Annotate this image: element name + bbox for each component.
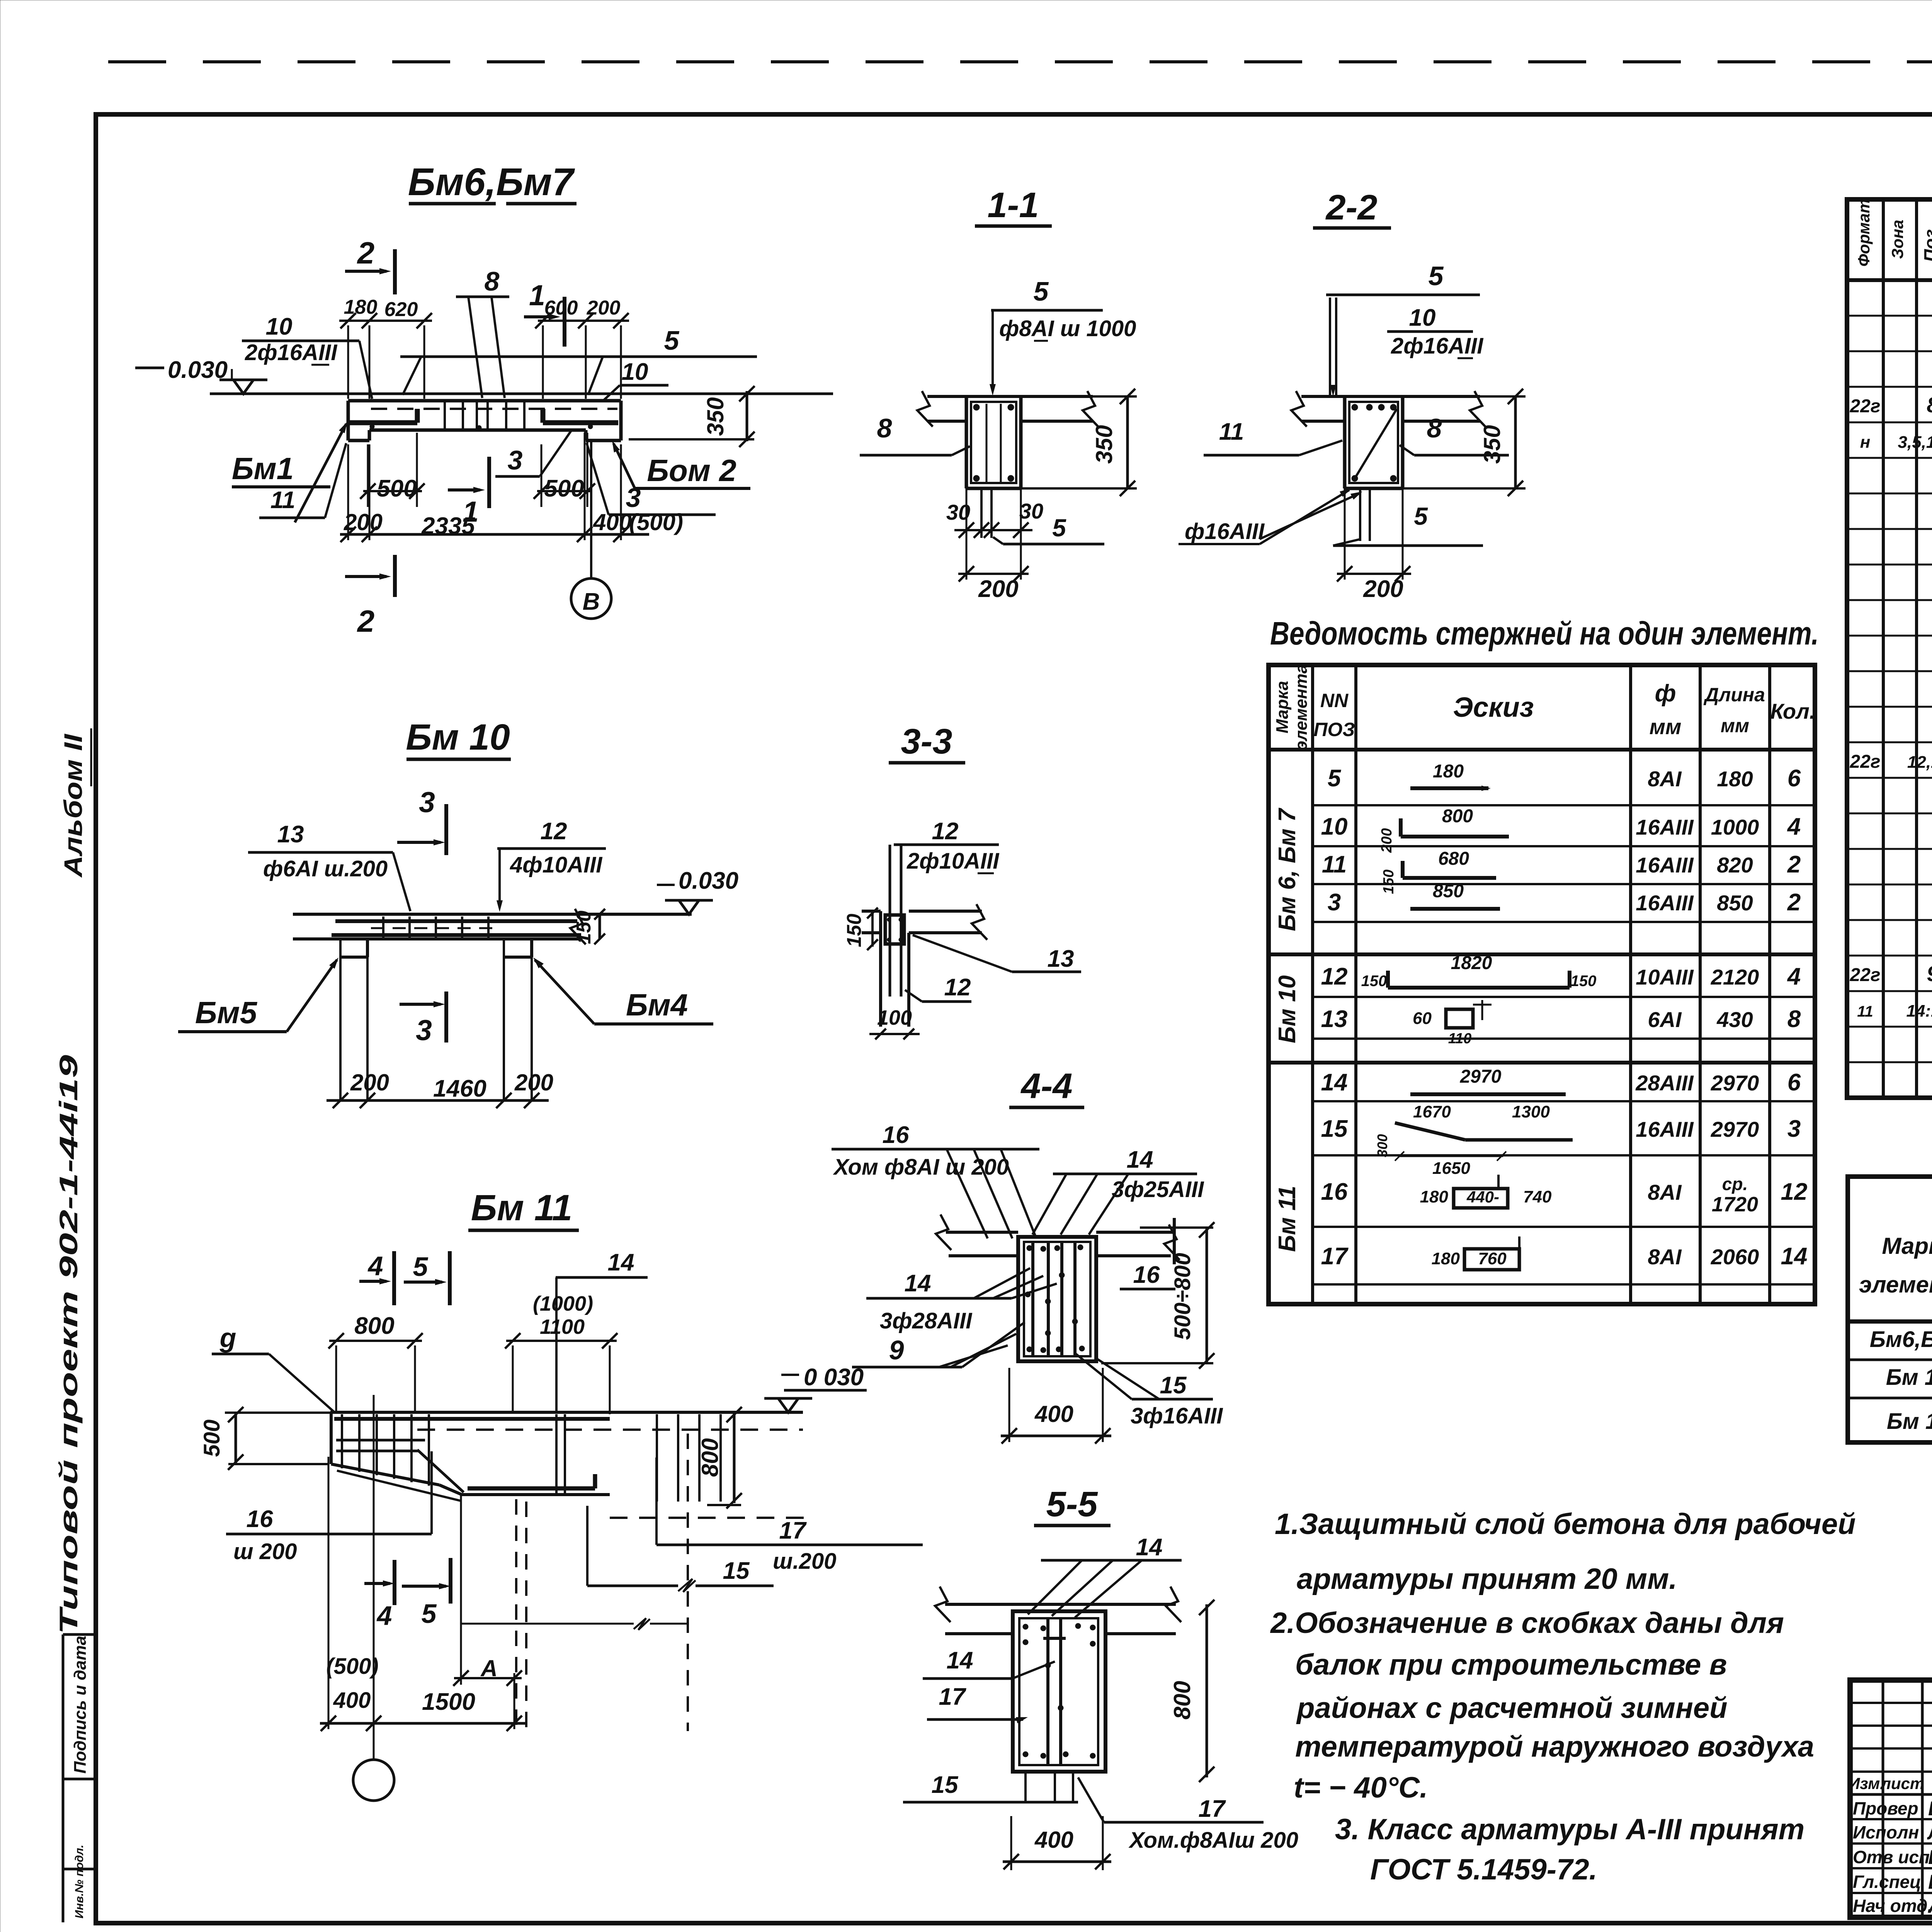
left margin bottom column box (62, 1634, 65, 1922)
svg-text:Альбом II: Альбом II (59, 733, 87, 878)
svg-text:3: 3 (1787, 1116, 1801, 1142)
beam Бм6 stirrups (444, 402, 446, 429)
vedomost header row line (1269, 748, 1815, 752)
svg-text:150: 150 (1381, 869, 1397, 894)
svg-text:Бм6,Бм7: Бм6,Бм7 (408, 160, 575, 204)
svg-text:0 030: 0 030 (804, 1364, 864, 1391)
section cut 1 top (563, 297, 566, 347)
section cut 5 top (448, 1251, 452, 1305)
svg-text:1000: 1000 (1711, 815, 1759, 839)
svg-text:500÷800: 500÷800 (1170, 1253, 1195, 1340)
svg-text:760: 760 (1478, 1249, 1507, 1268)
dimension 800 section 5-5 (1206, 1604, 1208, 1777)
svg-text:15: 15 (1160, 1372, 1187, 1399)
svg-text:150: 150 (843, 914, 866, 947)
svg-text:350: 350 (1091, 425, 1117, 464)
svg-text:4: 4 (367, 1251, 383, 1281)
svg-text:820: 820 (1717, 853, 1753, 877)
svg-text:30: 30 (1019, 499, 1043, 523)
svg-text:элемента: элемента (1292, 664, 1311, 750)
svg-text:Изм.: Изм. (1848, 1774, 1884, 1793)
svg-text:350: 350 (702, 397, 728, 436)
bottom dimension chain Бм6 (340, 533, 649, 536)
title block left verticals (1882, 1680, 1884, 1917)
beam Бм11 stirrups right group (656, 1414, 658, 1502)
section cut 2 top (393, 249, 397, 294)
beam Бм6 outline (348, 399, 621, 403)
svg-text:800: 800 (1169, 1681, 1195, 1719)
svg-text:3ф25АIII: 3ф25АIII (1112, 1177, 1204, 1202)
svg-text:2ф16АIII: 2ф16АIII (245, 340, 338, 365)
svg-text:Исполн: Исполн (1853, 1822, 1919, 1842)
svg-text:680: 680 (1438, 849, 1469, 869)
svg-text:8: 8 (1427, 413, 1442, 443)
right extension + dim 350 Бм6 (629, 438, 754, 440)
section cut 5 bottom Бм11 (449, 1558, 452, 1604)
svg-text:430: 430 (1716, 1007, 1753, 1032)
svg-text:14: 14 (947, 1647, 973, 1674)
beam Бм11 top rebar (334, 1417, 610, 1421)
svg-text:740: 740 (1523, 1187, 1552, 1206)
svg-text:ф: ф (1655, 680, 1676, 707)
svg-text:элемента: элемента (1859, 1272, 1932, 1298)
axis line Бм11 (373, 1395, 375, 1760)
svg-text:3: 3 (626, 483, 641, 513)
beam section 5-5 outline (1013, 1611, 1105, 1772)
svg-text:ш 200: ш 200 (233, 1539, 297, 1564)
svg-text:3: 3 (419, 786, 435, 818)
svg-text:16: 16 (1321, 1179, 1348, 1205)
beam Бм11 top line (330, 1411, 803, 1414)
axis circle Бм11 (353, 1760, 394, 1801)
svg-text:2060: 2060 (1711, 1245, 1759, 1269)
svg-text:0.030: 0.030 (168, 357, 228, 383)
svg-text:Отв исп.: Отв исп. (1853, 1847, 1932, 1867)
svg-text:Бм 10: Бм 10 (1274, 975, 1301, 1043)
svg-text:500: 500 (199, 1420, 224, 1457)
svg-text:400: 400 (1034, 1401, 1073, 1427)
svg-text:Бм 6, Бм 7: Бм 6, Бм 7 (1274, 808, 1301, 931)
svg-text:Бм1: Бм1 (232, 451, 294, 486)
beam Бм6 top bar dashed (371, 408, 617, 410)
slab rebar Бм10 (335, 919, 577, 923)
elevation -0.030 Бм11 (781, 1374, 799, 1376)
svg-text:400: 400 (333, 1688, 371, 1713)
bar dots section 5-5 (1023, 1624, 1028, 1629)
svg-text:Подпись и дата: Подпись и дата (71, 1636, 90, 1774)
svg-text:Длина: Длина (1703, 684, 1765, 706)
svg-text:15: 15 (1321, 1116, 1348, 1142)
svg-text:200: 200 (514, 1070, 553, 1095)
title block left top rows (1850, 1702, 1932, 1704)
beam Бм6 hooked bar left pos10 (350, 420, 417, 425)
top dashed fold line (108, 60, 1932, 63)
svg-text:10: 10 (266, 313, 293, 340)
leader for bar 5 top (400, 355, 757, 358)
svg-text:200: 200 (344, 509, 383, 535)
svg-text:8: 8 (1927, 393, 1932, 417)
svg-text:150: 150 (1361, 973, 1387, 990)
svg-text:150: 150 (1571, 973, 1597, 990)
beam Бм11 soffit second slope (337, 1471, 461, 1501)
svg-text:1.Защитный слой бетона дл: 1.Защитный слой бетона для рабочей (1275, 1508, 1856, 1541)
top dimension line left group (339, 320, 432, 322)
svg-text:12: 12 (1321, 963, 1348, 990)
svg-text:3,5,10,: 3,5,10, (1898, 433, 1932, 452)
svg-text:Эскиз: Эскиз (1453, 692, 1534, 723)
vedomost table verticals (1311, 665, 1314, 1304)
hidden floor line Бм11 (461, 1623, 634, 1625)
sketch row13: hoop 60x110 (1446, 1009, 1473, 1028)
svg-text:8АI: 8АI (1648, 767, 1682, 791)
svg-text:17: 17 (1321, 1243, 1349, 1270)
svg-text:Бм 10: Бм 10 (406, 717, 510, 758)
svg-text:3: 3 (416, 1014, 432, 1046)
dimension 800 right Бм11 (733, 1412, 736, 1503)
svg-text:5: 5 (1052, 514, 1066, 542)
svg-text:11: 11 (1857, 1003, 1873, 1020)
section cut 2 bottom (393, 555, 397, 597)
svg-text:16АIII: 16АIII (1636, 1117, 1694, 1141)
svg-text:9: 9 (1927, 961, 1932, 986)
svg-text:0.030: 0.030 (679, 867, 738, 894)
stirrup section 4-4 (1024, 1242, 1090, 1356)
svg-text:Провер: Провер (1853, 1798, 1918, 1818)
vedomost table frame (1269, 665, 1815, 1304)
svg-text:12: 12 (1781, 1179, 1808, 1205)
svg-text:350: 350 (1479, 425, 1505, 464)
svg-text:14:17: 14:17 (1906, 1002, 1932, 1020)
leaders 16 to stirrups (947, 1149, 988, 1238)
stirrup section 1-1 (971, 402, 1016, 483)
svg-text:н: н (1860, 433, 1871, 452)
svg-text:22г: 22г (1849, 396, 1880, 417)
svg-text:12: 12 (932, 818, 959, 845)
svg-text:5: 5 (413, 1252, 429, 1282)
svg-text:14: 14 (905, 1270, 931, 1297)
spec table row lines (1847, 315, 1932, 317)
svg-text:1650: 1650 (1432, 1159, 1470, 1178)
svg-text:5: 5 (422, 1599, 437, 1629)
svg-text:17: 17 (939, 1684, 966, 1710)
bar legs section 1-1 (986, 404, 988, 483)
vedomost group separators (1269, 952, 1815, 956)
svg-text:1670: 1670 (1413, 1102, 1451, 1121)
svg-text:ф16АIII: ф16АIII (1185, 519, 1265, 544)
svg-text:180: 180 (344, 296, 378, 318)
section cut 4 bottom Бм11 (393, 1560, 396, 1605)
svg-text:22г: 22г (1849, 752, 1880, 772)
elevation -0.030 left (135, 367, 164, 369)
svg-text:10: 10 (1321, 813, 1348, 840)
svg-text:16: 16 (247, 1506, 273, 1532)
svg-text:3-3: 3-3 (901, 722, 952, 761)
svg-text:14: 14 (1127, 1146, 1153, 1173)
svg-text:5: 5 (1328, 765, 1342, 792)
beam Бм6 hooked bar right pos10 (543, 420, 618, 425)
beam Бм11 left end (330, 1412, 333, 1464)
svg-text:2: 2 (1787, 889, 1801, 916)
svg-text:14: 14 (1781, 1243, 1808, 1270)
svg-text:1500: 1500 (422, 1689, 475, 1715)
svg-text:Шкляр: Шкляр (1928, 1846, 1932, 1869)
svg-text:400: 400 (593, 509, 632, 535)
svg-text:60: 60 (1413, 1009, 1432, 1028)
svg-text:16: 16 (1133, 1262, 1160, 1288)
svg-text:4: 4 (1787, 963, 1801, 990)
spec table header bottom (1847, 278, 1932, 282)
svg-text:Бм 10: Бм 10 (1886, 1365, 1932, 1390)
svg-text:800: 800 (697, 1438, 723, 1477)
svg-text:150: 150 (573, 911, 595, 944)
beam section 4-4 outline (1018, 1237, 1096, 1361)
svg-text:30: 30 (946, 500, 970, 524)
svg-text:ф8АI ш 1000: ф8АI ш 1000 (999, 316, 1136, 341)
svg-text:4: 4 (1787, 813, 1801, 840)
svg-text:15: 15 (932, 1772, 959, 1798)
svg-text:Типовой проект 902-1-44i19: Типовой проект 902-1-44i19 (54, 1055, 83, 1634)
svg-text:6: 6 (1787, 1069, 1801, 1096)
svg-text:мм: мм (1721, 715, 1749, 736)
axis mark B circle (590, 441, 592, 578)
svg-text:ш.200: ш.200 (773, 1549, 836, 1574)
svg-text:850: 850 (1717, 891, 1753, 915)
svg-text:8: 8 (485, 266, 500, 296)
elevation -0.030 Бм10 (657, 884, 675, 886)
beam Бм11 stirrup pair mid (555, 1414, 558, 1495)
stirrup section 5-5 (1019, 1618, 1098, 1765)
bottom bar extensions section 5-5 (1024, 1772, 1027, 1802)
svg-text:8АI: 8АI (1648, 1245, 1682, 1269)
svg-text:3ф28АIII: 3ф28АIII (880, 1308, 973, 1333)
svg-text:Поз.: Поз. (1920, 224, 1932, 262)
svg-text:2970: 2970 (1711, 1071, 1759, 1095)
svg-text:Зона: Зона (1888, 220, 1906, 259)
svg-text:мм: мм (1650, 714, 1682, 739)
svg-text:(500): (500) (629, 509, 683, 535)
beam Бм6 bar dots (370, 424, 374, 429)
svg-text:800: 800 (1442, 806, 1473, 827)
bottom bar extensions section 1-1 (980, 488, 983, 538)
svg-text:800: 800 (354, 1313, 394, 1339)
svg-text:22г: 22г (1849, 965, 1880, 985)
bottom dimension chain Бм10 (327, 1099, 549, 1102)
svg-text:Бродская: Бродская (1928, 1798, 1932, 1820)
beam Бм11 hidden bottom dashed (610, 1517, 805, 1519)
svg-text:3. Класс арматуры А-III пр: 3. Класс арматуры А-III принят (1335, 1813, 1804, 1846)
svg-text:ГОСТ 5.1459-72.: ГОСТ 5.1459-72. (1370, 1853, 1597, 1886)
spec table frame (1847, 199, 1932, 1098)
svg-text:28АIII: 28АIII (1635, 1071, 1694, 1095)
svg-text:1460: 1460 (433, 1075, 486, 1102)
svg-text:16: 16 (883, 1122, 909, 1148)
bottom dimension chain Бм11 (320, 1722, 526, 1725)
svg-text:100: 100 (877, 1006, 912, 1029)
slab section 2-2 (1301, 395, 1480, 398)
svg-text:температурой наружного возду: температурой наружного воздуха (1295, 1730, 1814, 1763)
slab Бм10 outline (293, 913, 692, 916)
svg-text:13: 13 (1321, 1006, 1348, 1032)
svg-text:6АI: 6АI (1648, 1007, 1682, 1032)
svg-text:1300: 1300 (1512, 1102, 1550, 1121)
svg-text:400: 400 (1034, 1827, 1073, 1853)
svg-text:3ф16АIII: 3ф16АIII (1131, 1403, 1223, 1429)
beam web section 2-2 (1343, 396, 1347, 488)
beam Бм11 bottom bar with hook (468, 1486, 595, 1491)
svg-text:10: 10 (1409, 304, 1436, 331)
section cut 4 top (392, 1251, 396, 1305)
slab lines section 4-4 (946, 1231, 1018, 1234)
svg-text:3: 3 (1328, 889, 1341, 916)
svg-text:110: 110 (1448, 1031, 1472, 1047)
svg-text:15: 15 (723, 1558, 750, 1584)
beam web section 1-1 (965, 396, 968, 488)
title block left bottom rows (1850, 1818, 1932, 1820)
bar legs section 4-4 (1031, 1242, 1034, 1356)
svg-text:1-1: 1-1 (988, 185, 1039, 225)
svg-text:Формат: Формат (1855, 199, 1873, 267)
bar dots section 1-1 (973, 404, 980, 410)
svg-text:14: 14 (1136, 1534, 1163, 1561)
svg-text:2: 2 (357, 236, 375, 270)
svg-text:180: 180 (1433, 761, 1464, 782)
svg-text:ф6АI ш.200: ф6АI ш.200 (263, 856, 388, 881)
svg-text:14: 14 (608, 1249, 634, 1276)
svg-text:арматуры принят 20 мм.: арматуры принят 20 мм. (1297, 1563, 1677, 1595)
svg-text:300: 300 (1374, 1134, 1390, 1157)
wall section 3-3 (879, 911, 882, 1027)
svg-text:200: 200 (1379, 828, 1395, 853)
svg-text:ср.: ср. (1722, 1174, 1748, 1194)
svg-text:620: 620 (384, 298, 418, 321)
svg-text:2ф10АIII: 2ф10АIII (906, 849, 1000, 874)
svg-text:лист: лист (1880, 1774, 1925, 1793)
svg-text:Власенко: Власенко (1928, 1871, 1932, 1893)
beam square section 3-3 (885, 915, 904, 944)
svg-text:11: 11 (270, 487, 295, 514)
vyborka table frame (1848, 1177, 1932, 1442)
bar dots section 4-4 (1027, 1245, 1032, 1251)
bar legs section 5-5 (1046, 1618, 1049, 1765)
dimension 350 section 2-2 (1480, 395, 1526, 398)
svg-text:NN: NN (1320, 690, 1349, 711)
svg-text:Бм6,Бм7: Бм6,Бм7 (1870, 1327, 1932, 1352)
svg-text:16АIII: 16АIII (1636, 853, 1694, 877)
svg-text:12: 12 (944, 974, 971, 1001)
svg-text:10: 10 (622, 359, 648, 385)
spec table verticals (1882, 199, 1885, 1098)
beam Бм11 stirrups left group (341, 1414, 343, 1468)
svg-text:(1000): (1000) (533, 1292, 593, 1315)
svg-text:Арсенов: Арсенов (1927, 1895, 1932, 1917)
svg-text:850: 850 (1433, 881, 1464, 901)
beam Бм11 bent bar (417, 1450, 464, 1492)
svg-text:g: g (219, 1323, 236, 1353)
title block frame (1850, 1680, 1932, 1917)
beam Бм11 bottom slope (331, 1464, 439, 1485)
svg-text:180: 180 (1717, 767, 1753, 791)
svg-text:Марка: Марка (1273, 681, 1292, 733)
beam Бм11 second bar left (336, 1439, 425, 1442)
svg-text:Бом 2: Бом 2 (647, 453, 736, 488)
svg-text:В: В (583, 588, 600, 615)
svg-text:8: 8 (1787, 1006, 1801, 1032)
svg-text:2.Обозначение в скобках дан: 2.Обозначение в скобках даны для (1270, 1607, 1784, 1639)
top dimension line right group (538, 320, 629, 322)
svg-text:13: 13 (277, 821, 304, 848)
dimension 150 section 3-3 (871, 911, 874, 947)
svg-text:6: 6 (1787, 765, 1801, 792)
svg-text:200: 200 (350, 1070, 389, 1095)
svg-text:10АIII: 10АIII (1636, 965, 1694, 989)
svg-text:Гл.спец: Гл.спец (1853, 1872, 1921, 1892)
supports Бм10 (339, 939, 342, 1100)
svg-text:5-5: 5-5 (1046, 1485, 1099, 1524)
dimension 350 section 1-1 (1093, 395, 1137, 398)
slab section 1-1 (927, 395, 1093, 398)
section cut 3 top (444, 804, 448, 855)
dimension 500 left Бм11 (225, 1412, 330, 1414)
svg-text:14: 14 (1321, 1069, 1348, 1096)
svg-text:12: 12 (541, 818, 567, 845)
vedomost row lines (1313, 804, 1815, 806)
svg-text:Инв.№ подл.: Инв.№ подл. (73, 1845, 86, 1918)
svg-text:2970: 2970 (1711, 1117, 1759, 1141)
svg-text:1720: 1720 (1712, 1193, 1758, 1216)
svg-text:Кол.: Кол. (1770, 699, 1816, 723)
svg-text:Бм 11: Бм 11 (471, 1187, 573, 1228)
svg-text:440-: 440- (1466, 1188, 1499, 1206)
stirrup section 2-2 (1349, 402, 1398, 483)
extension lines bottom Бм11 (328, 1457, 330, 1729)
svg-text:11: 11 (1219, 418, 1244, 445)
svg-text:2970: 2970 (1460, 1066, 1502, 1087)
svg-text:2120: 2120 (1711, 965, 1759, 989)
svg-text:1820: 1820 (1451, 953, 1492, 973)
svg-text:17: 17 (779, 1517, 807, 1544)
svg-text:1: 1 (529, 279, 545, 311)
slab section 3-3 (909, 910, 982, 913)
svg-text:ПОЗ: ПОЗ (1314, 719, 1355, 740)
svg-text:Бм5: Бм5 (195, 995, 258, 1030)
svg-text:Ведомость стержней на один эле: Ведомость стержней на один элемент. (1270, 615, 1819, 651)
svg-text:11: 11 (1322, 851, 1347, 878)
svg-text:1100: 1100 (540, 1315, 585, 1338)
svg-text:500: 500 (544, 475, 584, 502)
svg-text:8: 8 (877, 413, 892, 443)
svg-text:Бм4: Бм4 (626, 988, 688, 1022)
svg-text:4-4: 4-4 (1020, 1066, 1073, 1106)
dimension line 1100 (506, 1340, 617, 1342)
svg-text:Марка: Марка (1882, 1233, 1932, 1259)
svg-text:5: 5 (1429, 261, 1444, 291)
svg-text:районах с расчетной зимней: районах с расчетной зимней (1296, 1692, 1728, 1725)
svg-text:2335: 2335 (421, 513, 475, 539)
section cut 3 bottom (444, 992, 448, 1043)
svg-text:2ф16АIII: 2ф16АIII (1391, 333, 1484, 359)
svg-text:2: 2 (357, 604, 375, 638)
svg-text:5: 5 (1034, 276, 1049, 306)
svg-text:2-2: 2-2 (1325, 188, 1378, 227)
bars 2ф16 vertical section 2-2 (1329, 298, 1331, 395)
svg-text:180: 180 (1432, 1249, 1460, 1268)
svg-text:t= − 40°C.: t= − 40°C. (1294, 1771, 1428, 1804)
dimension 150 right Бм10 (599, 914, 601, 939)
slab lines section 5-5 (945, 1603, 1176, 1606)
slab break mark Бм10 (570, 909, 586, 944)
svg-text:9: 9 (889, 1335, 904, 1365)
bars 2ф10 section 3-3 (889, 845, 891, 997)
